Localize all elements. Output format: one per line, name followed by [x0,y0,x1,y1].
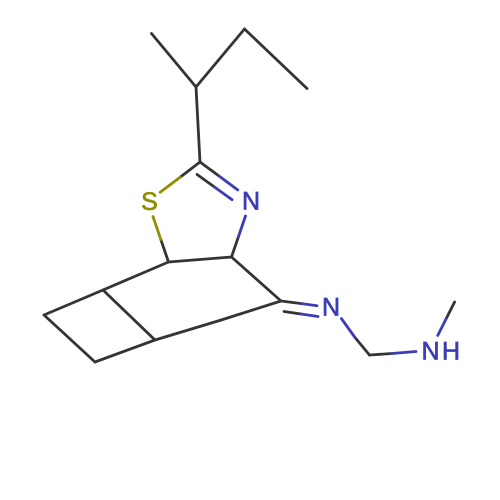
NH-CH3 nitrogen half [438,319,446,336]
B3-B2 [155,321,218,340]
sec-butyl CH2-CH3 tail [245,29,308,89]
B3-B4 shared edge [103,290,155,340]
P3-B3 [95,340,155,362]
N3-C4 carbon half [232,237,239,258]
S-C2 sulfur half [160,177,180,192]
C2=N3 main line nitrogen half [219,176,238,190]
P1-P3 [44,315,95,362]
svg-text:NH: NH [422,338,463,366]
S-C5 lower(carbon) half [161,239,169,262]
Nim-V carbon half [355,338,370,356]
sec-butyl CH-CH2 right [196,29,245,87]
S-C5 sulfur half [153,217,161,240]
V-NH nitrogen half [392,352,416,354]
imC=N main line carbon half [281,301,302,304]
C4-C5 bond [169,257,232,262]
sec-butyl stem C2-CH [196,87,200,162]
C4-imC [232,257,282,301]
Nim-V nitrogen half [341,319,355,338]
sec-butyl CH-CH3 left [152,34,197,88]
olive sulfur halves [153,177,180,239]
C2=N3 inner line carbon half [197,175,215,188]
N3-C4 nitrogen half [239,216,246,237]
C2=N3 inner line nitrogen half [215,187,233,200]
C2=N3 main line carbon half [200,162,219,176]
blue nitrogen halves [215,176,447,354]
S-C2 upper(carbon) half [180,162,200,177]
svg-text:S: S [141,188,158,216]
C5-B4 [103,262,169,290]
imC=N second nitrogen half [301,314,318,317]
svg-text:N: N [322,294,340,322]
imC=N main nitrogen half [302,304,318,306]
gray carbon skeleton [44,29,455,362]
V-NH carbon half [370,354,393,356]
B2-imC [218,301,281,321]
NH-CH3 carbon half [446,302,454,319]
svg-text:N: N [242,188,260,216]
imC=N second line carbon half [284,312,301,315]
B4-P1 [44,290,103,315]
